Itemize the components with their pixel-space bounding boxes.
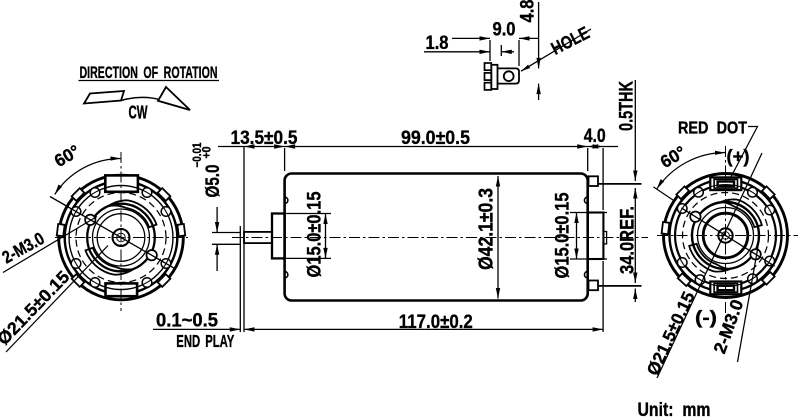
- svg-text:9.0: 9.0: [493, 19, 516, 41]
- svg-text:0.1~0.5: 0.1~0.5: [156, 310, 218, 332]
- svg-text:−0.01: −0.01: [192, 142, 204, 168]
- svg-text:Ø42.1±0.3: Ø42.1±0.3: [476, 188, 498, 270]
- svg-text:4.0: 4.0: [584, 125, 606, 147]
- svg-text:DIRECTION OF ROTATION: DIRECTION OF ROTATION: [80, 64, 218, 82]
- svg-text:Ø15.0±0.15: Ø15.0±0.15: [552, 192, 574, 278]
- svg-text:34.0REF.: 34.0REF.: [617, 206, 639, 274]
- svg-text:Ø5.0: Ø5.0: [203, 165, 224, 198]
- svg-text:0.5THK: 0.5THK: [617, 81, 638, 131]
- svg-text:(-): (-): [695, 308, 717, 328]
- svg-text:CW: CW: [129, 103, 148, 123]
- svg-text:99.0±0.5: 99.0±0.5: [401, 127, 470, 149]
- svg-text:Ø15.0±0.15: Ø15.0±0.15: [304, 191, 326, 277]
- svg-text:Unit: mm: Unit: mm: [638, 400, 711, 420]
- svg-text:13.5±0.5: 13.5±0.5: [231, 127, 298, 149]
- svg-text:117.0±0.2: 117.0±0.2: [399, 311, 473, 333]
- svg-text:1.8: 1.8: [426, 32, 449, 54]
- svg-text:4.8: 4.8: [517, 0, 539, 23]
- svg-text:RED DOT: RED DOT: [678, 118, 747, 138]
- svg-text:(+): (+): [727, 147, 750, 167]
- svg-text:END PLAY: END PLAY: [176, 331, 234, 351]
